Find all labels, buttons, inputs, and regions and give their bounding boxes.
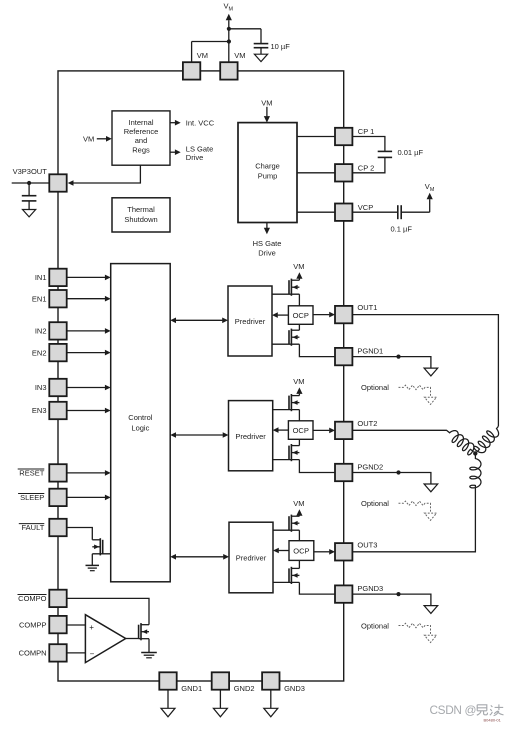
- svg-text:Optional: Optional: [361, 621, 389, 630]
- label GND2: [234, 684, 255, 693]
- label PGND2: [357, 462, 383, 471]
- wire VM arrow into charge pump: [264, 107, 270, 123]
- svg-text:OUT3: OUT3: [357, 540, 377, 549]
- svg-text:FAULT: FAULT: [22, 523, 45, 532]
- wire OCP2 to predriver (arrow): [273, 427, 289, 433]
- label 0.01 uF: [398, 148, 424, 157]
- pin GND1: [159, 672, 176, 689]
- ground (below V3P3OUT cap): [23, 210, 36, 217]
- svg-text:Predriver: Predriver: [235, 317, 266, 326]
- svg-text:Optional: Optional: [361, 383, 389, 392]
- wire RESET to control logic: [67, 470, 111, 476]
- label 10 uF: [271, 42, 291, 51]
- wire EN1 to control logic: [67, 296, 111, 302]
- node junction PGND2: [396, 470, 400, 474]
- transistor Q5 high-side phase 3: [273, 515, 299, 532]
- svg-text:OCP: OCP: [293, 546, 309, 555]
- pin OUT3: [335, 543, 352, 560]
- wire LS Gate Drive output arrow: [170, 149, 181, 155]
- label CP 2: [358, 164, 375, 173]
- svg-text:Internal: Internal: [128, 118, 153, 127]
- svg-text:GND3: GND3: [284, 684, 305, 693]
- wire charge pump to CP2: [297, 172, 335, 174]
- wire GND1 to ground: [167, 690, 169, 709]
- svg-text:Drive: Drive: [258, 248, 276, 257]
- label CP 1: [358, 127, 375, 136]
- power flag VM phase 2: [296, 387, 302, 395]
- label COMPP: [19, 620, 47, 629]
- svg-text:SLEEP: SLEEP: [20, 493, 44, 502]
- inductor L1 motor winding A (upper-right): [474, 426, 499, 452]
- svg-text:Pump: Pump: [258, 171, 278, 180]
- wire Q5 source to OCP3: [298, 530, 300, 541]
- pin PGND2: [335, 464, 352, 481]
- wire Q3 source to OCP2: [298, 410, 300, 421]
- label PGND3: [357, 584, 383, 593]
- svg-text:10 µF: 10 µF: [271, 42, 291, 51]
- wire Q7 source to ground: [91, 554, 93, 566]
- svg-text:VM: VM: [83, 134, 94, 143]
- label COMPO: [18, 594, 47, 603]
- label HS Gate Drive: [253, 239, 282, 257]
- ground (Q8 source): [141, 653, 157, 658]
- power flag VM phase 1: [296, 272, 302, 280]
- label EN2: [32, 348, 47, 357]
- wire reference to V3P3OUT pin: [68, 165, 141, 186]
- wire CP1-CP2 flying cap loop: [352, 137, 385, 173]
- svg-text:OCP: OCP: [293, 426, 309, 435]
- wire OCP2 to Q4 drain: [298, 439, 300, 445]
- label FAULT: [19, 523, 45, 532]
- block U-CP Charge Pump: [238, 123, 297, 223]
- svg-text:VM: VM: [293, 377, 304, 386]
- label GND3: [284, 684, 305, 693]
- svg-text:Optional: Optional: [361, 499, 389, 508]
- svg-text:+: +: [89, 623, 94, 632]
- svg-text:EN3: EN3: [32, 406, 47, 415]
- svg-text:IN3: IN3: [35, 383, 47, 392]
- svg-text:OCP: OCP: [293, 311, 309, 320]
- ground (optional R2, dashed): [424, 513, 436, 520]
- label VM input to reference: [83, 134, 94, 143]
- svg-text:VCP: VCP: [358, 203, 373, 212]
- svg-text:Thermal: Thermal: [127, 205, 155, 214]
- label VM (phase 2): [293, 377, 304, 386]
- ground (Q7 source): [86, 565, 100, 570]
- figure number B0480-01: [484, 718, 502, 723]
- capacitor C4 0.1uF: [398, 205, 401, 219]
- wire OUT3 to motor phase C: [353, 488, 476, 552]
- svg-text:PGND3: PGND3: [357, 584, 383, 593]
- label OUT1: [357, 303, 377, 312]
- svg-text:Predriver: Predriver: [235, 432, 266, 441]
- svg-text:Reference: Reference: [124, 127, 159, 136]
- label VM pin2: [234, 51, 245, 60]
- svg-text:OUT2: OUT2: [357, 419, 377, 428]
- wire control logic to predriver 3 (bidirectional): [170, 554, 229, 560]
- pin EN3: [49, 402, 66, 419]
- svg-text:EN2: EN2: [32, 348, 47, 357]
- label RESET: [18, 469, 45, 478]
- block OCP1: [288, 306, 313, 325]
- wire IN2 to control logic: [67, 328, 111, 334]
- power flag V_M (top): [224, 2, 234, 63]
- svg-text:Regs: Regs: [132, 146, 150, 155]
- pin EN1: [49, 290, 66, 307]
- label Optional 1: [361, 383, 389, 392]
- pin PGND1: [335, 348, 352, 365]
- wire IN3 to control logic: [67, 385, 111, 391]
- wire OCP1 to predriver (arrow): [272, 312, 288, 318]
- svg-text:IN1: IN1: [35, 273, 47, 282]
- label Int. VCC: [186, 118, 215, 127]
- wire control logic to predriver 2 (bidirectional): [170, 432, 228, 438]
- label IN3: [35, 383, 47, 392]
- block U-PD3 Predriver: [229, 522, 273, 593]
- wire Q6 source to PGND3: [299, 582, 335, 594]
- pin IN2: [49, 322, 66, 339]
- ground (GND1): [161, 708, 175, 717]
- power flag V_M (right): [425, 182, 435, 200]
- block OCP2: [288, 421, 313, 440]
- pin OUT1: [335, 306, 352, 323]
- capacitor C3 0.01uF: [378, 151, 392, 157]
- wire control logic to predriver 1 (bidirectional): [170, 318, 228, 324]
- wire Q2 source to PGND1: [299, 344, 335, 356]
- wire PGND3 to ground: [352, 594, 431, 606]
- wire Int. VCC output arrow: [170, 120, 181, 126]
- svg-text:Control: Control: [128, 413, 153, 422]
- pin OUT2: [335, 422, 352, 439]
- wire OUT2 to motor phase B: [352, 429, 446, 431]
- wire GND2 to ground: [219, 690, 221, 709]
- svg-text:0.1 µF: 0.1 µF: [391, 225, 413, 234]
- ground (PGND3): [424, 606, 438, 614]
- label VM pin1: [197, 51, 208, 60]
- svg-text:PGND2: PGND2: [357, 462, 383, 471]
- label Optional 3: [361, 621, 389, 630]
- wire PGND2 to ground: [352, 473, 431, 485]
- svg-text:Charge: Charge: [255, 161, 280, 170]
- wire COMPO to Q8 drain: [67, 598, 149, 624]
- wire VM branch left to VM pin1: [192, 42, 229, 63]
- label IN2: [35, 327, 47, 336]
- label VM input to charge pump: [261, 98, 272, 107]
- svg-text:−: −: [90, 650, 95, 659]
- svg-text:Logic: Logic: [131, 424, 149, 433]
- wire COMPN to comparator -: [67, 652, 86, 654]
- pin COMPN: [49, 644, 66, 661]
- block OCP3: [289, 541, 314, 561]
- block U-TSD Thermal Shutdown: [112, 198, 170, 232]
- svg-text:COMPP: COMPP: [19, 620, 47, 629]
- capacitor C1 10uF: [254, 44, 269, 55]
- svg-text:IN2: IN2: [35, 327, 47, 336]
- svg-text:GND1: GND1: [181, 684, 202, 693]
- transistor Q8 (comparator output): [139, 623, 149, 640]
- wire Q8 source to ground: [148, 639, 150, 653]
- pin VCP: [335, 204, 352, 221]
- pin EN2: [49, 344, 66, 361]
- wire charge pump to VCP: [297, 211, 335, 213]
- wire OCP3 to Q6 drain: [298, 560, 300, 568]
- pin VM (left): [183, 62, 200, 79]
- inductor L2 motor winding B (upper-left): [447, 430, 474, 455]
- svg-text:COMPO: COMPO: [18, 594, 47, 603]
- pin GND3: [262, 672, 279, 689]
- svg-text:Shutdown: Shutdown: [124, 215, 157, 224]
- label VM (phase 3): [293, 499, 304, 508]
- pin IN1: [49, 269, 66, 286]
- pin COMPO: [49, 590, 66, 607]
- svg-text:CP 2: CP 2: [358, 164, 375, 173]
- label COMPN: [19, 649, 47, 658]
- node junction V3P3OUT: [27, 181, 31, 185]
- label EN3: [32, 406, 47, 415]
- pin COMPP: [49, 616, 66, 633]
- pin GND2: [212, 672, 229, 689]
- svg-text:VM: VM: [261, 98, 272, 107]
- watermark CSDN: [430, 703, 477, 717]
- label LS Gate Drive: [186, 145, 214, 163]
- svg-text:VM: VM: [197, 51, 208, 60]
- label VM (phase 1): [293, 262, 304, 271]
- svg-text:Predriver: Predriver: [236, 554, 267, 563]
- wire COMPP to comparator +: [67, 624, 86, 626]
- svg-text:0.01 µF: 0.01 µF: [398, 148, 424, 157]
- svg-text:GND2: GND2: [234, 684, 255, 693]
- svg-text:EN1: EN1: [32, 294, 47, 303]
- pin IN3: [49, 379, 66, 396]
- transistor Q3 high-side phase 2: [273, 394, 300, 411]
- block U-CTRL Control Logic: [111, 264, 171, 582]
- ground (below 10uF cap): [254, 54, 267, 61]
- svg-text:Drive: Drive: [186, 153, 204, 162]
- label GND1: [181, 684, 202, 693]
- inductor L3 motor winding C (bottom): [470, 455, 481, 488]
- label Optional 2: [361, 499, 389, 508]
- node junction top-2: [227, 39, 231, 43]
- svg-text:COMPN: COMPN: [19, 649, 47, 658]
- resistor R2 (optional, dashed): [399, 501, 431, 513]
- pin CP2: [335, 164, 352, 181]
- svg-text:and: and: [135, 136, 148, 145]
- wire IN1 to control logic: [67, 275, 111, 281]
- transistor Q2 low-side phase 1: [272, 329, 299, 346]
- pin RESET: [49, 464, 66, 481]
- label IN1: [35, 273, 47, 282]
- svg-text:RESET: RESET: [19, 469, 44, 478]
- block U-REF Internal Reference and Regs: [112, 111, 170, 165]
- IC main block outline (DRV8313): [58, 71, 344, 681]
- wire VM branch right to 10uF cap: [229, 29, 261, 44]
- wire SLEEP to control logic: [67, 495, 111, 501]
- pin PGND3: [335, 585, 352, 602]
- wire EN3 to control logic: [67, 408, 111, 414]
- ground (GND3): [264, 708, 278, 717]
- transistor Q4 low-side phase 2: [273, 444, 300, 461]
- svg-text:V3P3OUT: V3P3OUT: [13, 167, 48, 176]
- node junction PGND3: [396, 592, 400, 596]
- wire cap to VM flag: [401, 199, 430, 212]
- svg-text:CSDN @: CSDN @: [430, 703, 477, 717]
- wire GND3 to ground: [270, 690, 272, 709]
- wire charge pump to CP1: [297, 136, 335, 138]
- wire OUT1 to motor phase A: [352, 315, 498, 427]
- wire VCP to 0.1uF cap: [352, 211, 397, 213]
- label EN1: [32, 294, 47, 303]
- power flag VM phase 3: [296, 509, 302, 516]
- watermark CJK glyphs: [477, 704, 504, 715]
- wire OCP3 to predriver (arrow): [273, 548, 289, 554]
- wire OCP1 to OUT1 (arrow): [313, 312, 335, 318]
- node junction PGND1: [396, 355, 400, 359]
- wire HS Gate Drive output arrow: [264, 223, 270, 235]
- svg-text:PGND1: PGND1: [357, 346, 383, 355]
- svg-text:OUT1: OUT1: [357, 303, 377, 312]
- wire VM arrow into reference: [97, 136, 112, 142]
- svg-text:VM: VM: [293, 262, 304, 271]
- svg-text:B0480-01: B0480-01: [484, 718, 502, 723]
- ground (optional R1, dashed): [424, 397, 436, 404]
- resistor R3 (optional, dashed): [399, 623, 431, 635]
- wire Q4 source to PGND2: [299, 460, 335, 473]
- label OUT3: [357, 540, 377, 549]
- op-amp U-CMP comparator: [85, 615, 125, 663]
- label OUT2: [357, 419, 377, 428]
- pin SLEEP: [49, 489, 66, 506]
- pin FAULT: [49, 519, 66, 536]
- svg-text:HS Gate: HS Gate: [253, 239, 282, 248]
- svg-text:CP 1: CP 1: [358, 127, 375, 136]
- wire PGND1 to ground: [352, 357, 431, 369]
- ground (PGND1): [424, 368, 438, 376]
- ground (PGND2): [424, 484, 438, 492]
- label PGND1: [357, 346, 383, 355]
- wire OCP2 to OUT2 (arrow): [313, 428, 335, 434]
- ground (GND2): [213, 708, 227, 717]
- svg-text:Int. VCC: Int. VCC: [186, 118, 215, 127]
- pin VM (right): [220, 62, 237, 79]
- pin CP1: [335, 128, 352, 145]
- wire EN2 to control logic: [67, 350, 111, 356]
- capacitor C2 (V3P3OUT bypass): [22, 183, 37, 210]
- wire FAULT to Q7 drain: [67, 528, 92, 540]
- wire OCP3 to OUT3 (arrow): [314, 549, 335, 555]
- transistor Q6 low-side phase 3: [273, 567, 299, 584]
- pin V3P3OUT: [49, 174, 66, 191]
- block U-PD1 Predriver: [228, 286, 272, 356]
- svg-text:VM: VM: [234, 51, 245, 60]
- ground (optional R3, dashed): [424, 635, 436, 642]
- label SLEEP: [18, 493, 44, 502]
- wire V3P3OUT external: [12, 182, 50, 184]
- label V3P3OUT: [13, 167, 48, 176]
- wire comparator output to Q8 gate: [126, 638, 139, 640]
- resistor R1 (optional, dashed): [399, 385, 431, 397]
- block U-PD2 Predriver: [229, 401, 273, 471]
- wire Q1 source to OCP1: [298, 294, 300, 306]
- wire OCP1 to Q2 drain: [298, 324, 300, 330]
- label VCP: [358, 203, 373, 212]
- transistor Q7 (FAULT open drain): [92, 538, 110, 555]
- transistor Q1 high-side phase 1: [272, 279, 299, 296]
- node motor star point: [473, 451, 477, 455]
- label 0.1 uF: [391, 225, 413, 234]
- node junction top-1: [227, 27, 231, 31]
- svg-text:VM: VM: [293, 499, 304, 508]
